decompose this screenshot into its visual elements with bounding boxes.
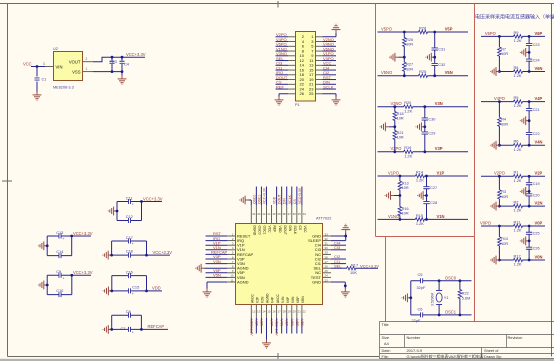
wire group verticals — [112, 315, 142, 329]
wire OSC1 bottom — [411, 314, 472, 316]
svg-text:ME6206-3.3: ME6206-3.3 — [53, 86, 74, 90]
wire top V3NO to V3N — [378, 106, 469, 108]
net VDD label — [147, 290, 163, 292]
svg-text:10R: 10R — [397, 117, 404, 121]
svg-text:25: 25 — [325, 269, 329, 273]
svg-text:C11: C11 — [126, 195, 133, 200]
svg-text:OSC0: OSC0 — [445, 275, 457, 280]
svg-text:Sheet of: Sheet of — [484, 348, 499, 353]
svg-text:V6P: V6P — [535, 31, 543, 36]
U1 pin 7 V3N — [227, 263, 235, 265]
capacitor C17 — [112, 240, 147, 242]
svg-text:R21: R21 — [397, 131, 404, 135]
svg-text:33: 33 — [325, 232, 329, 236]
capacitor C25 — [528, 226, 530, 260]
svg-text:+: + — [132, 242, 134, 246]
resistor R18 — [394, 107, 396, 152]
svg-text:V4N: V4N — [281, 296, 285, 303]
svg-text:C23: C23 — [533, 43, 540, 47]
svg-text:AGND: AGND — [237, 279, 249, 284]
net VCC+3.3V label — [262, 187, 266, 204]
svg-text:Date:: Date: — [382, 348, 391, 353]
P1 pin 12 — [288, 60, 295, 62]
wire net CI1 — [276, 69, 289, 71]
wire pin23 GND — [331, 282, 345, 289]
svg-text:OSC0: OSC0 — [252, 195, 256, 204]
svg-text:V6N: V6N — [535, 66, 543, 71]
resistor R25 — [418, 74, 427, 78]
wire net SEL — [276, 60, 289, 62]
sheet border bottom — [8, 356, 380, 358]
svg-text:38: 38 — [282, 212, 286, 216]
capacitor C21 — [528, 102, 530, 146]
U1 pin 13 V2P — [255, 305, 257, 318]
wire bottom V1NO to V1N — [378, 218, 469, 220]
wire pin8 AGND — [205, 267, 228, 269]
net V6N label — [290, 320, 294, 327]
resistor R6 — [513, 143, 522, 147]
svg-text:23: 23 — [325, 278, 329, 282]
wire net VCC+3.3V — [276, 318, 278, 334]
svg-text:DGND: DGND — [253, 226, 257, 236]
P1 pin 16 — [288, 69, 295, 71]
capacitor C12 — [117, 220, 142, 222]
svg-text:R16: R16 — [402, 207, 409, 211]
P1 pin 22 — [288, 83, 295, 85]
svg-text:VCC+3.3V: VCC+3.3V — [262, 187, 266, 204]
P1 pin 25 — [316, 93, 323, 95]
U1 pin 27 CI1 — [323, 263, 331, 265]
capacitor C29 — [422, 132, 428, 134]
svg-text:V0P: V0P — [535, 220, 543, 225]
wire net DIN — [323, 83, 337, 85]
svg-text:C1: C1 — [42, 78, 47, 82]
net VCC+3.3V label — [147, 254, 171, 256]
wire net V1N — [206, 249, 228, 251]
P1 pin 21 — [316, 83, 323, 85]
svg-text:VIN: VIN — [56, 64, 63, 69]
svg-text:OSC1: OSC1 — [263, 226, 267, 235]
svg-text:37: 37 — [288, 212, 292, 216]
svg-text:VDD: VDD — [273, 196, 277, 204]
wire net V6N — [291, 318, 293, 334]
svg-text:V4P: V4P — [271, 296, 275, 303]
node junction C3 bottom — [111, 70, 114, 73]
wire net V6P — [286, 318, 288, 334]
svg-text:R26: R26 — [406, 38, 413, 42]
svg-text:10R: 10R — [501, 52, 508, 56]
ground crystal — [402, 293, 411, 302]
ground — [103, 251, 112, 260]
svg-text:VCC+3.3V: VCC+3.3V — [249, 320, 253, 337]
ground bottom left — [491, 67, 500, 76]
svg-text:V3PO: V3PO — [391, 146, 402, 151]
pin 1 VSS — [83, 71, 93, 73]
capacitor C20 — [526, 194, 532, 196]
U1 pin 24 TEST — [323, 276, 331, 278]
net VCC+3.3V label — [275, 320, 279, 337]
svg-text:C13: C13 — [56, 230, 63, 235]
svg-text:File:: File: — [382, 354, 389, 359]
wire C1 lead — [36, 67, 38, 92]
svg-text:V6N: V6N — [290, 320, 294, 327]
wire net SCLK — [323, 88, 337, 90]
svg-text:AVCC: AVCC — [276, 293, 280, 303]
wire R17 to VCC — [355, 267, 378, 269]
svg-text:C10: C10 — [56, 288, 64, 293]
svg-text:R20: R20 — [404, 100, 412, 105]
U1 pin 11 AGND — [227, 281, 235, 283]
ground below pin15 — [262, 340, 271, 349]
wire net IRQ — [276, 74, 289, 76]
wire net V4NO — [323, 45, 337, 47]
resistor R20 — [404, 105, 413, 109]
P1 pin 19 — [316, 79, 323, 81]
svg-text:V5PO: V5PO — [381, 26, 392, 31]
capacitor C3 — [111, 57, 113, 71]
svg-text:2: 2 — [86, 57, 88, 61]
svg-text:VSS: VSS — [72, 69, 81, 74]
wire net V5P — [206, 272, 228, 274]
svg-text:C25: C25 — [533, 232, 540, 236]
ground bottom left — [491, 141, 500, 150]
svg-text:R14: R14 — [416, 169, 424, 174]
svg-text:R25: R25 — [419, 69, 426, 74]
svg-text:V2P: V2P — [535, 171, 543, 176]
wire net V4N — [281, 318, 283, 334]
svg-text:C4: C4 — [124, 62, 130, 67]
net DIN label — [283, 198, 287, 204]
ground below C4 — [118, 76, 127, 85]
wire net REF — [276, 88, 289, 90]
svg-text:43: 43 — [257, 212, 261, 216]
wire top V5PO to V5P — [378, 31, 469, 33]
net VBN label — [300, 320, 304, 328]
svg-text:R3: R3 — [501, 190, 506, 194]
svg-text:32pF: 32pF — [417, 285, 426, 290]
ground left rail — [394, 195, 400, 197]
wire net V1NO — [276, 50, 289, 52]
wire net REFCAP — [206, 253, 228, 255]
svg-text:VCC+3.3V: VCC+3.3V — [143, 196, 163, 201]
svg-text:1.2K: 1.2K — [514, 178, 522, 183]
ground below P1 right — [332, 97, 341, 106]
wire net SEL — [331, 267, 347, 269]
wire net CI4 — [331, 244, 346, 246]
wire P1 pin25 to ground — [323, 94, 337, 97]
wire net V3PO — [323, 60, 337, 62]
svg-text:10R: 10R — [402, 212, 409, 216]
U1 pin 29 NC — [323, 253, 331, 255]
U1 pin 6 V3P — [227, 258, 235, 260]
svg-text:VCC+3.3V: VCC+3.3V — [73, 231, 93, 236]
sheet border left — [7, 4, 9, 357]
svg-text:VCC+3.3V: VCC+3.3V — [275, 320, 279, 337]
svg-text:+C3: +C3 — [110, 59, 117, 64]
svg-text:VCC+3.3V: VCC+3.3V — [153, 250, 173, 255]
svg-text:+: + — [132, 203, 134, 207]
svg-text:SCLK: SCLK — [293, 226, 297, 235]
svg-text:17: 17 — [277, 310, 281, 314]
wire bottom V3PO to V3P — [378, 151, 469, 153]
wire P1 pin1 to power — [323, 33, 337, 37]
capacitor C16 — [112, 275, 147, 277]
capacitor C22 — [526, 132, 532, 134]
svg-text:R6: R6 — [514, 139, 519, 144]
svg-text:V6P: V6P — [286, 296, 290, 303]
wire net V6NO — [323, 50, 337, 52]
wire net VCC+3.3V — [265, 187, 267, 206]
U1 pin 28 CI2 — [323, 258, 331, 260]
svg-text:V6N: V6N — [291, 296, 295, 303]
U1 pin 3 V1P — [227, 244, 235, 246]
resistor R15 — [415, 218, 424, 222]
group box B left edge — [474, 4, 476, 322]
svg-text:Y1: Y1 — [444, 295, 449, 300]
resistor R9 — [513, 35, 522, 39]
wire net V6PO — [276, 45, 289, 47]
svg-text:R19: R19 — [404, 145, 411, 150]
capacitor C8 — [112, 314, 142, 316]
svg-text:29: 29 — [325, 251, 329, 255]
ground — [38, 281, 47, 290]
capacitor C4 — [121, 57, 123, 71]
svg-text:10R: 10R — [501, 242, 508, 246]
wire net V1PO — [323, 55, 337, 57]
wire P1 pin26 to ground — [279, 94, 288, 97]
svg-text:SEL: SEL — [334, 263, 342, 268]
capacitor C9 — [47, 274, 72, 276]
resistor R1 — [513, 175, 522, 179]
svg-text:+: + — [132, 292, 134, 296]
capacitor C10 — [47, 294, 72, 296]
capacitor C28 — [423, 202, 429, 204]
svg-text:P1: P1 — [295, 103, 300, 107]
svg-text:R5: R5 — [514, 95, 519, 100]
svg-text:R17: R17 — [351, 262, 358, 267]
ground at pin8 — [196, 264, 205, 273]
wire net VBP — [296, 318, 298, 334]
wire net V2P — [255, 318, 257, 334]
svg-text:+: + — [62, 277, 64, 281]
svg-text:19: 19 — [288, 310, 292, 314]
svg-text:V1N: V1N — [437, 214, 445, 219]
wire net CI1 — [331, 263, 346, 265]
svg-text:DOUT: DOUT — [278, 194, 282, 204]
net VCC+3.3V label — [249, 320, 253, 337]
svg-text:V1NO: V1NO — [388, 214, 399, 219]
resistor R17 — [347, 266, 356, 270]
svg-text:3.5296M: 3.5296M — [431, 293, 435, 306]
wire bottom V5NO to V5N — [378, 75, 469, 77]
net V2N label — [259, 320, 263, 327]
svg-text:V3N: V3N — [435, 101, 443, 106]
svg-text:GND: GND — [312, 279, 321, 284]
net VCC+3.3V label — [72, 235, 91, 237]
wire net V3P — [206, 258, 228, 260]
svg-text:1.2K: 1.2K — [514, 73, 522, 78]
wire net VDD — [276, 187, 278, 206]
U1 pin 12 AVCC — [250, 305, 252, 318]
U1 pin 33 GND — [323, 235, 331, 237]
window edge band bottom — [0, 359, 554, 361]
svg-text:V3N: V3N — [213, 259, 221, 264]
wire net VBN — [301, 318, 303, 334]
svg-text:12: 12 — [252, 310, 256, 314]
svg-text:V2N: V2N — [261, 296, 265, 303]
P1 pin 10 — [288, 55, 295, 57]
capacitor C6 — [421, 312, 423, 317]
U1 pin 42 OSC1 — [260, 205, 262, 223]
node junction C4 top — [121, 56, 124, 59]
resistor R22 — [459, 281, 461, 315]
U1 pin 20 V6N — [291, 305, 293, 318]
P1 pin 3 — [316, 41, 323, 43]
svg-text:C8: C8 — [126, 309, 131, 314]
U1 pin 18 V4N — [281, 305, 283, 318]
svg-text:U2: U2 — [53, 47, 58, 51]
svg-text:OSC1: OSC1 — [445, 309, 457, 314]
svg-text:10R: 10R — [406, 43, 413, 47]
net VCC+3.3V label — [298, 187, 302, 204]
resistor R13 — [399, 176, 401, 219]
svg-text:A4: A4 — [384, 341, 390, 346]
ground at pin44 — [240, 196, 249, 205]
svg-text:22: 22 — [303, 310, 307, 314]
wire group verticals — [117, 202, 142, 221]
wire bottom to V6N — [499, 71, 545, 73]
net SCLK label — [288, 194, 292, 204]
U1 pin 41 VCC — [265, 205, 267, 223]
U1 pin 36 SCLK — [291, 205, 293, 223]
net VBP label — [295, 320, 299, 328]
svg-text:DIN: DIN — [283, 198, 287, 204]
svg-text:31: 31 — [325, 242, 329, 246]
wire net V4PO — [276, 41, 289, 43]
wire net CI2 — [331, 258, 346, 260]
wire VOUT to VCC+3.3V — [93, 57, 145, 62]
svg-text:SCLK: SCLK — [288, 194, 292, 204]
svg-text:C14: C14 — [56, 249, 64, 254]
svg-text:C32: C32 — [438, 63, 445, 67]
node junction C3 top — [111, 56, 114, 59]
svg-text:VBP: VBP — [295, 320, 299, 328]
capacitor C27 — [426, 176, 428, 219]
svg-text:V3P: V3P — [435, 146, 443, 151]
U1 pin 31 CI4 — [323, 244, 331, 246]
svg-text:25: 25 — [309, 91, 314, 96]
wire bottom to V0N — [499, 259, 545, 261]
capacitor C18 — [112, 254, 147, 256]
wire net RST — [206, 235, 228, 237]
P1 pin 8 — [288, 50, 295, 52]
svg-text:R15: R15 — [416, 213, 423, 218]
svg-text:AGND: AGND — [266, 293, 270, 303]
ground below pin23 — [341, 289, 350, 298]
U1 pin 4 V1N — [227, 249, 235, 251]
svg-text:VBP: VBP — [296, 296, 300, 303]
capacitor C1 — [35, 78, 40, 80]
wire top V4PO to V4P — [481, 101, 545, 103]
resistor R14 — [415, 174, 424, 178]
svg-text:Revision: Revision — [508, 335, 523, 340]
P1 pin 4 — [288, 41, 295, 43]
capacitor C14 — [47, 255, 71, 257]
ground — [108, 207, 117, 216]
group box A bottom edge — [376, 236, 475, 238]
svg-text:V0PO: V0PO — [480, 220, 491, 225]
P1 pin 9 — [316, 55, 323, 57]
ground mid caps — [520, 116, 529, 125]
net OSC0 label — [252, 195, 256, 204]
P1 pin 26 — [288, 93, 295, 95]
wire net CS — [276, 83, 289, 85]
svg-text:C5: C5 — [418, 272, 423, 277]
U1 pin 22 VBN — [301, 305, 303, 318]
U1 pin 25 NC — [323, 272, 331, 274]
svg-text:26: 26 — [300, 91, 305, 96]
svg-text:C24: C24 — [533, 59, 540, 63]
ground — [103, 325, 112, 334]
wire left rail — [410, 281, 412, 315]
wire group verticals — [47, 236, 71, 256]
svg-text:R27: R27 — [406, 63, 413, 67]
svg-text:20: 20 — [293, 310, 297, 314]
P1 pin 1 — [316, 36, 323, 38]
svg-text:R8: R8 — [514, 65, 519, 70]
svg-text:R1: R1 — [514, 170, 519, 175]
net V2P label — [254, 320, 258, 327]
wire net V2N — [260, 318, 262, 334]
net CS label — [293, 199, 297, 204]
P1 pin 11 — [316, 60, 323, 62]
resistor R5 — [513, 100, 522, 104]
svg-text:V6PO: V6PO — [485, 31, 496, 36]
resistor R10 — [498, 226, 500, 260]
sheet border right — [551, 4, 553, 357]
wire net V3NO — [276, 55, 289, 57]
svg-text:5.6M: 5.6M — [462, 296, 470, 300]
wire net DOUT — [276, 79, 289, 81]
sheet zone tick top — [277, 1, 279, 8]
capacitor C11 — [117, 201, 142, 203]
P1 pin 14 — [288, 64, 295, 66]
U1 pin 37 DIN — [286, 205, 288, 223]
svg-text:CS: CS — [293, 199, 297, 204]
U1 pin 40 REF — [271, 205, 273, 223]
wire net VCC+3.3V — [250, 318, 252, 334]
svg-text:CI3: CI3 — [334, 245, 341, 250]
net OSC1 label — [257, 195, 261, 204]
wire group verticals — [47, 275, 72, 294]
svg-text:24: 24 — [325, 274, 329, 278]
power symbol above P1 — [332, 24, 341, 33]
svg-text:+: + — [132, 331, 134, 335]
net DOUT label — [278, 194, 282, 204]
U1 pin 15 AGND — [265, 305, 267, 318]
svg-text:40: 40 — [272, 212, 276, 216]
svg-text:42: 42 — [262, 212, 266, 216]
P1 pin 13 — [316, 64, 323, 66]
U1 pin 16 V4P — [271, 305, 273, 318]
svg-text:V5N: V5N — [213, 273, 221, 278]
svg-text:C17: C17 — [126, 235, 133, 240]
svg-text:Drawn By:: Drawn By: — [484, 354, 502, 359]
P1 pin 5 — [316, 45, 323, 47]
svg-text:R9: R9 — [514, 30, 519, 35]
svg-text:C12: C12 — [126, 214, 133, 219]
svg-text:10: 10 — [230, 274, 234, 278]
